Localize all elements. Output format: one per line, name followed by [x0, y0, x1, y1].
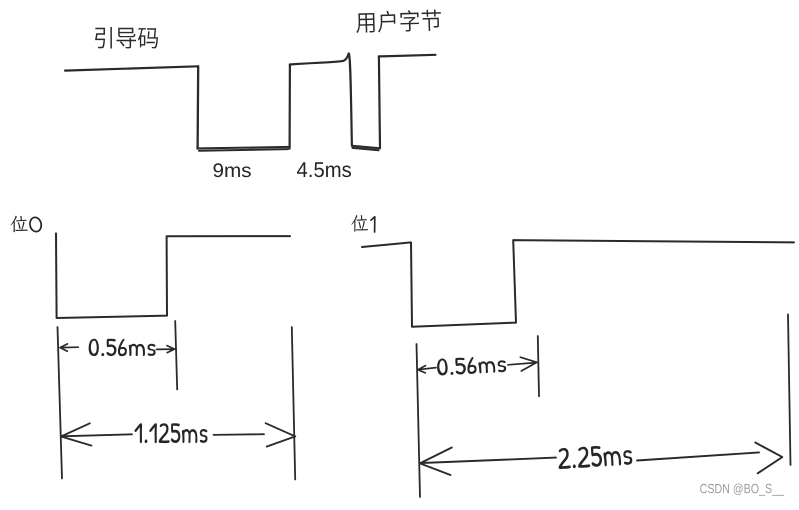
dimension line: bit1 2.25ms left segment	[422, 458, 557, 463]
wire: user-byte rising edge	[379, 56, 380, 148]
extension line: bit0 left	[58, 327, 63, 479]
extension line: bit0 middle	[175, 321, 177, 390]
extension line: bit0 right	[292, 327, 295, 480]
dimension line: bit0 1.125ms right segment	[214, 433, 265, 436]
dimension arrow: bit1 0.56ms right arrowhead	[520, 357, 537, 371]
watermark: CSDN @BO_S__	[700, 484, 784, 496]
dimension line: bit0 1.125ms left segment	[62, 434, 133, 436]
label: bit0 digit 0	[29, 216, 43, 232]
value label: bit1 0.56ms	[437, 355, 507, 376]
wire: user-byte high level	[379, 55, 436, 57]
dimension arrow: bit0 1.125ms right arrowhead	[266, 423, 296, 446]
label: user byte 用户字节	[356, 9, 442, 33]
wire: lead-code high level (left)	[65, 66, 198, 70]
wire: falling edge after spike	[349, 54, 352, 146]
wire: bit0 waveform	[56, 233, 290, 318]
wire: bit1 waveform	[362, 240, 794, 327]
wire: 9ms low level	[198, 147, 290, 151]
value label: bit0 0.56ms	[89, 339, 156, 357]
wire: 4.5ms high level with spike	[290, 54, 349, 65]
wire: 9ms falling edge	[196, 66, 199, 148]
wire: 4.5ms rising edge	[289, 65, 291, 149]
dimension arrow: bit1 0.56ms left arrow	[418, 366, 436, 373]
value label: bit1 2.25ms	[557, 444, 632, 469]
dimension arrow: bit0 0.56ms right arrow	[157, 346, 175, 353]
label: bit1 位	[351, 215, 368, 232]
label: bit0 位	[11, 216, 28, 233]
extension line: bit1 right	[788, 314, 791, 465]
wire: 0.56ms low level	[352, 146, 380, 151]
dimension arrow: bit0 1.125ms left arrowhead	[61, 423, 92, 445]
value label: bit0 1.125ms	[135, 423, 208, 443]
extension line: bit1 left	[417, 344, 421, 497]
dimension arrow: bit1 2.25ms right arrowhead	[755, 443, 782, 474]
dimension arrow: bit0 0.56ms left arrow	[60, 344, 78, 351]
label: 4.5ms	[297, 162, 351, 177]
label: bit1 digit 1	[371, 217, 375, 232]
dimension line: bit1 0.56ms right segment	[508, 363, 536, 365]
extension line: bit1 middle	[538, 336, 539, 396]
dimension arrow: bit1 2.25ms left arrowhead	[420, 448, 452, 476]
dimension line: bit1 2.25ms right segment	[637, 452, 759, 460]
label: lead code 引导码	[95, 27, 158, 49]
label: 9ms	[214, 163, 251, 177]
